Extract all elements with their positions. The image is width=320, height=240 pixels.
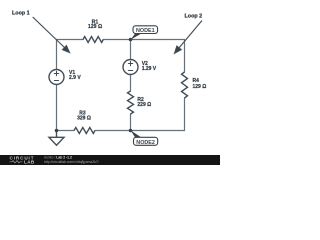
svg-text:229 Ω: 229 Ω <box>137 102 151 108</box>
svg-text:http://circuitlab.com/c/nfq8jy: http://circuitlab.com/c/nfq8jyxma2k7/ <box>44 160 99 164</box>
svg-text:NODE1: NODE1 <box>136 28 155 34</box>
svg-text:329 Ω: 329 Ω <box>77 115 91 121</box>
svg-text:LAB: LAB <box>24 160 35 165</box>
svg-text:Loop 1: Loop 1 <box>12 11 30 17</box>
svg-text:NODE2: NODE2 <box>136 140 155 146</box>
svg-text:Loop 2: Loop 2 <box>185 14 203 20</box>
svg-text:129 Ω: 129 Ω <box>88 24 102 30</box>
svg-text:2.9 V: 2.9 V <box>69 75 81 81</box>
svg-text:129 Ω: 129 Ω <box>193 84 207 90</box>
svg-text:1.29 V: 1.29 V <box>142 66 157 72</box>
